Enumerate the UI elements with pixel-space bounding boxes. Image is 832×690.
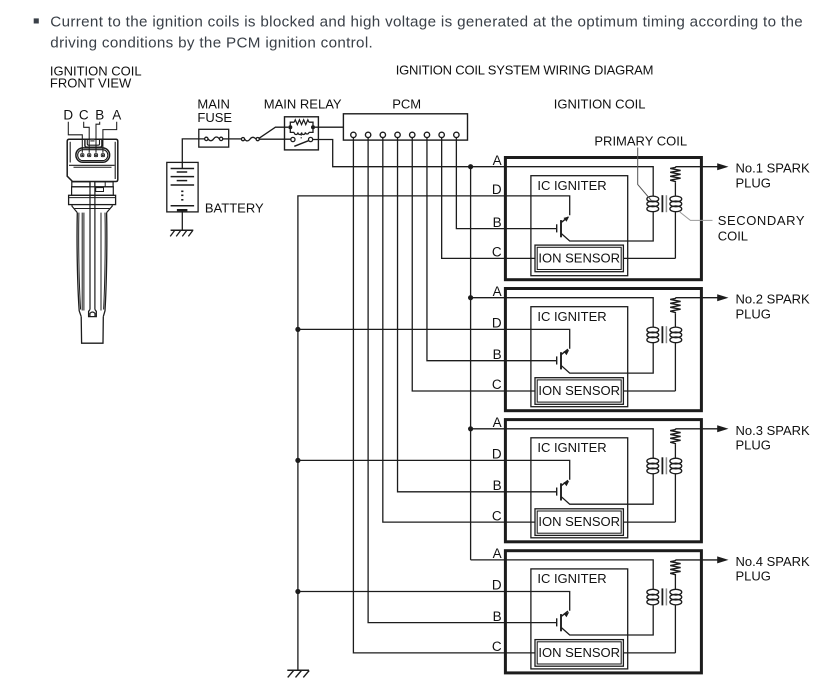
ignition coil front view: lock tab — [85, 139, 102, 147]
svg-text:BATTERY: BATTERY — [205, 201, 264, 216]
wire: terminal A to primary coil (coil 4) — [505, 560, 653, 590]
wire: terminal A to primary coil (coil 2) — [505, 298, 653, 328]
svg-text:PRIMARY COIL: PRIMARY COIL — [594, 134, 687, 149]
wire: relay coil to PCM — [315, 126, 343, 128]
svg-text:D: D — [492, 578, 502, 593]
svg-text:COIL: COIL — [718, 228, 748, 243]
wire: transistor emitter to primary coil bottom (coil 1) — [561, 211, 653, 241]
wire: PCM pin 8 to coil 1 terminal B — [456, 138, 505, 229]
svg-text:A: A — [493, 284, 502, 299]
svg-text:FUSE: FUSE — [197, 110, 232, 125]
ignition coil front view: collar — [69, 195, 116, 204]
ion sensor box (coil 4) — [535, 640, 623, 667]
wire: connector to relay coil (branch up) — [259, 127, 288, 138]
junction D3 — [295, 458, 300, 463]
svg-text:PCM: PCM — [392, 96, 421, 111]
wire: ion sensor to secondary coil (coil 2) — [623, 390, 675, 392]
heading bullet — [34, 18, 39, 23]
relay mechanical link — [300, 134, 302, 135]
svg-text:ION SENSOR: ION SENSOR — [538, 514, 620, 529]
wire: terminal B to transistor gate (coil 3) — [505, 491, 556, 493]
svg-text:MAIN RELAY: MAIN RELAY — [264, 96, 342, 111]
ground (battery) — [171, 229, 194, 231]
svg-text:PLUG: PLUG — [736, 438, 771, 453]
fuse MAIN FUSE — [199, 129, 229, 147]
inline connector — [241, 138, 244, 141]
wire: PCM pin 6 to coil 2 terminal B — [427, 138, 505, 361]
wire: terminal D to transistor collector (coil 1) — [505, 196, 569, 215]
transformer core (coil 4) — [661, 588, 663, 605]
ignition coil front view: center rod — [89, 182, 91, 310]
ignition coil front view: head inner contour lines — [69, 142, 71, 163]
ignition coil No.3 unit box — [505, 420, 701, 542]
ignition coil front view: body band B — [72, 187, 114, 196]
resistor (noise suppressor, coil 3) — [670, 429, 680, 445]
wire: battery negative to ground — [181, 210, 183, 230]
wire: secondary output to spark plug No.2 — [675, 297, 717, 299]
battery BATTERY — [167, 162, 198, 212]
wire: fuse to inline connector — [229, 138, 242, 140]
wire: ion sensor to secondary coil (coil 4) — [623, 652, 675, 654]
relay coil terminals (junction dots) — [288, 125, 292, 129]
wire: PCM pin 7 to coil 1 terminal C — [442, 138, 506, 259]
junction A2 — [468, 295, 473, 300]
transistor Q4 — [556, 618, 558, 626]
svg-text:C: C — [492, 245, 502, 260]
wire: secondary output to spark plug No.4 — [675, 559, 717, 561]
svg-text:B: B — [493, 478, 502, 493]
junction D4 — [295, 589, 300, 594]
ignition coil front view: leader line B — [96, 122, 100, 153]
ignition coil front view: socket pins — [81, 154, 84, 157]
primary coil L1a — [647, 196, 659, 202]
svg-text:Current to the ignition coils: Current to the ignition coils is blocked… — [50, 14, 803, 31]
wire: terminal B to transistor gate (coil 2) — [505, 360, 556, 362]
svg-text:A: A — [493, 153, 502, 168]
wire: terminal C to ion sensor (coil 1) — [505, 257, 535, 259]
wire: PCM pin 1 to coil 4 terminal C — [353, 138, 505, 653]
wire: terminal C to ion sensor (coil 3) — [505, 521, 535, 523]
ground (main bus) — [287, 669, 309, 671]
wire: battery positive to main fuse — [182, 139, 204, 168]
junction A1 — [468, 164, 473, 169]
secondary coil L2b — [674, 313, 676, 327]
ignition coil front view: leader line C — [84, 122, 90, 153]
ion sensor box (coil 1) — [535, 245, 623, 272]
svg-text:IC IGNITER: IC IGNITER — [537, 571, 606, 586]
wire: terminal C to ion sensor (coil 2) — [505, 390, 535, 392]
junction A3 — [468, 426, 473, 431]
ignition coil front view: boot flare — [72, 205, 77, 213]
svg-text:SECONDARY: SECONDARY — [718, 213, 806, 228]
ignition coil No.1 unit box — [505, 158, 701, 280]
svg-text:C: C — [492, 377, 502, 392]
wire: terminal C to ion sensor (coil 4) — [505, 652, 535, 654]
svg-text:A: A — [112, 108, 121, 123]
ignition coil No.4 unit box — [505, 551, 701, 673]
secondary coil L3b — [674, 444, 676, 458]
wire: power bus to coil 4 terminal A — [471, 559, 506, 561]
ignition coil front view: connector socket — [76, 148, 110, 162]
svg-text:ION SENSOR: ION SENSOR — [538, 383, 620, 398]
relay coil inductor — [290, 127, 294, 132]
transistor Q1 — [556, 224, 558, 232]
svg-text:D: D — [492, 182, 502, 197]
secondary coil L4b — [674, 576, 676, 590]
svg-text:ION SENSOR: ION SENSOR — [538, 251, 620, 266]
transistor Q3 — [556, 488, 558, 496]
svg-text:C: C — [492, 508, 502, 523]
svg-text:FRONT VIEW: FRONT VIEW — [50, 76, 132, 91]
leader line: primary coil — [638, 148, 652, 201]
primary coil L4a — [647, 589, 659, 595]
svg-text:No.4 SPARK: No.4 SPARK — [736, 554, 811, 569]
wire: terminal D to transistor collector (coil 4) — [505, 592, 569, 611]
wire: transistor emitter to primary coil bottom (coil 2) — [561, 342, 653, 373]
svg-text:IC IGNITER: IC IGNITER — [537, 440, 606, 455]
wire: PCM pin 3 to coil 3 terminal C — [383, 138, 506, 522]
ignition coil front view: leader line D — [68, 122, 82, 153]
svg-text:C: C — [492, 639, 502, 654]
svg-text:B: B — [493, 609, 502, 624]
wire: transistor emitter to primary coil bottom (coil 3) — [561, 473, 653, 504]
ignition coil front view: connector head outline — [67, 139, 118, 181]
svg-text:IGNITION COIL SYSTEM WIRING DI: IGNITION COIL SYSTEM WIRING DIAGRAM — [396, 63, 654, 78]
wire: terminal A to primary coil (coil 3) — [505, 429, 653, 459]
svg-text:IC IGNITER: IC IGNITER — [537, 178, 606, 193]
resistor (noise suppressor, coil 4) — [670, 560, 680, 576]
wire: ground bus to coil 2 terminal D — [298, 328, 506, 330]
relay contact blade — [294, 141, 308, 147]
svg-text:B: B — [95, 108, 104, 123]
IC igniter box (coil 2) — [531, 307, 628, 407]
IC igniter box (coil 4) — [531, 569, 628, 669]
svg-text:D: D — [492, 447, 502, 462]
wire: terminal B to transistor gate (coil 4) — [505, 622, 556, 624]
wire: ground bus to coil 4 terminal D — [298, 591, 506, 593]
svg-text:No.3 SPARK: No.3 SPARK — [736, 423, 811, 438]
ignition coil front view: lower tube — [81, 317, 103, 344]
svg-text:PLUG: PLUG — [736, 176, 771, 191]
ion sensor box (coil 2) — [535, 378, 623, 405]
transformer core (coil 2) — [661, 326, 663, 343]
relay coil resistor — [290, 122, 294, 127]
svg-text:B: B — [493, 347, 502, 362]
svg-text:D: D — [63, 108, 73, 123]
svg-text:B: B — [493, 215, 502, 230]
wire: coil 1 terminal D to ground bus — [298, 196, 506, 670]
wire: secondary output to spark plug No.1 — [675, 166, 717, 168]
svg-text:A: A — [493, 546, 502, 561]
ignition coil front view: body band A — [72, 182, 90, 187]
svg-text:PLUG: PLUG — [736, 569, 771, 584]
svg-text:C: C — [79, 108, 89, 123]
svg-text:A: A — [493, 415, 502, 430]
ignition coil front view: boot inner contour lines — [81, 213, 83, 311]
svg-text:ION SENSOR: ION SENSOR — [538, 645, 620, 660]
wire: PCM pin 5 to coil 2 terminal C — [412, 138, 505, 391]
wire: ground bus to coil 3 terminal D — [298, 459, 506, 461]
transformer core (coil 3) — [661, 457, 663, 474]
relay contacts — [291, 137, 295, 141]
leader line: secondary coil — [680, 212, 713, 220]
svg-text:No.2 SPARK: No.2 SPARK — [736, 292, 811, 307]
relay MAIN RELAY box — [285, 117, 319, 150]
transformer core (coil 1) — [661, 195, 663, 212]
wire: power bus vertical — [470, 167, 472, 560]
ignition coil front view: boot outer edges — [77, 213, 81, 317]
wire: PCM pin 2 to coil 4 terminal B — [368, 138, 505, 623]
secondary coil L1b — [674, 182, 676, 196]
ignition coil No.2 unit box — [505, 289, 701, 411]
wire: terminal A to primary coil (coil 1) — [505, 167, 653, 197]
wire: transistor emitter to primary coil bottom (coil 4) — [561, 605, 653, 636]
wire: ion sensor to secondary coil (coil 1) — [623, 257, 675, 259]
resistor (noise suppressor, coil 2) — [670, 298, 680, 314]
wire: terminal D to transistor collector (coil 2) — [505, 329, 569, 348]
wire: power bus to coil 2 terminal A — [471, 297, 506, 299]
wire: terminal B to transistor gate (coil 1) — [505, 228, 556, 230]
wire: connector to relay contact — [259, 138, 291, 140]
wire: ion sensor to secondary coil (coil 3) — [623, 521, 675, 523]
primary coil L2a — [647, 327, 659, 333]
PCM box — [343, 114, 467, 140]
wire: terminal D to transistor collector (coil 3) — [505, 460, 569, 479]
wire: secondary output to spark plug No.3 — [675, 428, 717, 430]
svg-text:No.1 SPARK: No.1 SPARK — [736, 161, 811, 176]
IC igniter box (coil 1) — [531, 176, 628, 276]
PCM pins 1-8 — [351, 132, 356, 137]
wire: PCM pin 4 to coil 3 terminal B — [398, 138, 506, 492]
primary coil L3a — [647, 458, 659, 464]
svg-text:driving conditions by the PCM: driving conditions by the PCM ignition c… — [50, 35, 373, 52]
wire: power bus to coil 3 terminal A — [471, 428, 506, 430]
IC igniter box (coil 3) — [531, 438, 628, 538]
ion sensor box (coil 3) — [535, 509, 623, 536]
resistor (noise suppressor, coil 1) — [670, 167, 680, 183]
svg-text:IGNITION COIL: IGNITION COIL — [554, 96, 646, 111]
svg-text:IC IGNITER: IC IGNITER — [537, 309, 606, 324]
svg-text:PLUG: PLUG — [736, 307, 771, 322]
transistor Q2 — [556, 356, 558, 364]
wire: relay contact to ignition coil power bus (net B+) — [313, 140, 506, 167]
junction D2 — [295, 327, 300, 332]
svg-text:D: D — [492, 316, 502, 331]
ignition coil front view: leader line A — [103, 122, 117, 153]
